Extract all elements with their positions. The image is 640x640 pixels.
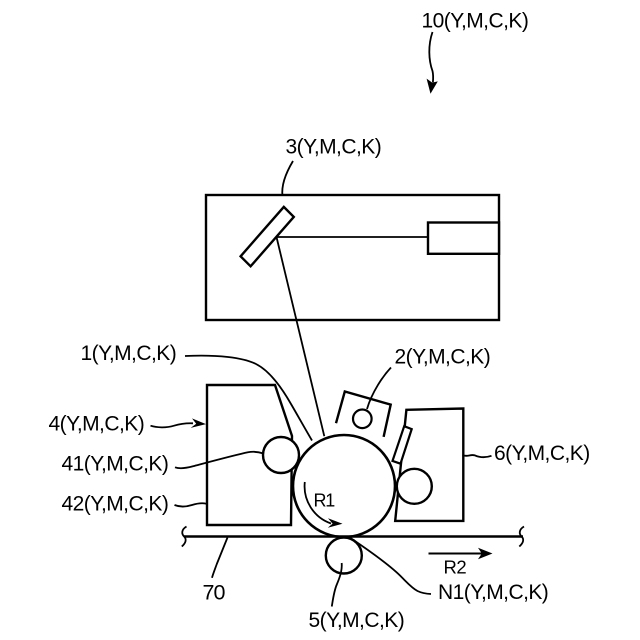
svg-text:5(Y,M,C,K): 5(Y,M,C,K) (309, 609, 405, 632)
leader to mirror 3 (282, 161, 293, 207)
belt break mark right (519, 527, 524, 547)
leader to roller 41 (175, 452, 264, 469)
cleaning unit 6 (395, 409, 463, 521)
belt break mark left (182, 527, 187, 547)
developing unit 4 (207, 385, 292, 525)
svg-text:R2: R2 (444, 557, 467, 578)
developing roller 41 (263, 437, 299, 473)
exposure unit box (206, 195, 499, 320)
leader to housing 42 (175, 503, 207, 506)
svg-text:3(Y,M,C,K): 3(Y,M,C,K) (286, 136, 382, 159)
laser source rectangle (428, 223, 499, 254)
arrow R2 (429, 553, 483, 555)
laser beam horizontal (277, 236, 429, 238)
svg-text:41(Y,M,C,K): 41(Y,M,C,K) (62, 453, 169, 476)
photosensitive drum 1 (293, 435, 395, 537)
svg-text:10(Y,M,C,K): 10(Y,M,C,K) (422, 10, 529, 33)
svg-text:N1(Y,M,C,K): N1(Y,M,C,K) (438, 581, 548, 604)
arrow to unit 10 (429, 32, 433, 82)
mirror 3 (241, 207, 294, 266)
svg-text:70: 70 (203, 581, 226, 605)
charger 2 wire circle (353, 410, 372, 429)
laser beam to drum (277, 237, 325, 436)
leader to nip N1 (351, 538, 432, 594)
svg-text:R1: R1 (314, 491, 336, 511)
svg-text:2(Y,M,C,K): 2(Y,M,C,K) (395, 346, 491, 369)
svg-text:42(Y,M,C,K): 42(Y,M,C,K) (62, 493, 169, 516)
leader to charger 2 (367, 368, 391, 410)
cleaning blade (393, 426, 412, 464)
charger 2 housing (open tilted rect) (336, 392, 391, 437)
transfer belt 70 (184, 535, 523, 537)
svg-text:1(Y,M,C,K): 1(Y,M,C,K) (81, 342, 177, 365)
leader arrow to developing unit 4 (151, 423, 194, 427)
svg-text:4(Y,M,C,K): 4(Y,M,C,K) (49, 413, 145, 436)
svg-text:6(Y,M,C,K): 6(Y,M,C,K) (494, 442, 590, 465)
leader to roller 5 (332, 563, 342, 607)
leader to drum 1 (185, 356, 312, 441)
cleaning roller 61 (397, 469, 432, 504)
transfer roller 5 (326, 538, 362, 574)
leader to belt 70 (212, 538, 228, 578)
rotation arrow R1 (305, 482, 331, 524)
leader to unit 6 (463, 455, 492, 457)
